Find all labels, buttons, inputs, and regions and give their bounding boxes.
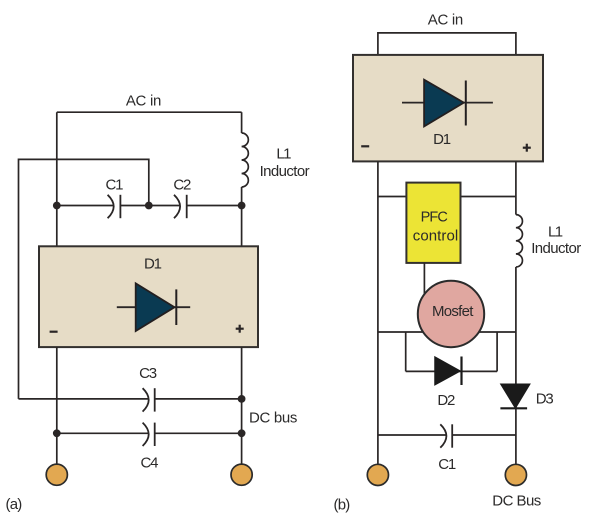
svg-text:D1: D1 xyxy=(433,131,451,148)
rectifier block D1 (a) xyxy=(39,246,258,347)
wire: C1 row middle segment (a) xyxy=(120,205,180,207)
diode D3 triangle xyxy=(501,384,529,407)
node dot right C-row (a) xyxy=(238,202,246,210)
wire: D2 row horizontal xyxy=(406,370,497,372)
rectifier block D1 (b) xyxy=(353,55,543,161)
wire: top horizontal AC-in rail (a) xyxy=(57,111,242,113)
wire: C1 row right segment (a) xyxy=(187,205,242,207)
wire: second horizontal rail to C1/C2 mid node (a) xyxy=(19,159,149,399)
svg-text:AC in: AC in xyxy=(428,11,464,28)
svg-text:D3: D3 xyxy=(536,391,554,408)
svg-text:DC bus: DC bus xyxy=(249,410,297,427)
wire: below inductor to node (a) xyxy=(241,187,243,246)
wire: C4 row left segment xyxy=(57,432,149,434)
svg-text:(b): (b) xyxy=(334,497,351,514)
capacitor C1 curved plate xyxy=(108,195,114,218)
node dot middle C-row (a) xyxy=(145,202,153,210)
diode triangle D1 (b) xyxy=(424,80,464,127)
capacitor C3 flat plate xyxy=(154,388,156,411)
wire: C3 row right segment xyxy=(155,398,242,400)
wire: right vertical below D1 (a) xyxy=(241,347,243,464)
capacitor C1 flat plate xyxy=(119,195,121,218)
capacitor C1b flat plate xyxy=(451,424,453,447)
PFC control box U1 xyxy=(406,183,460,263)
svg-text:PFC: PFC xyxy=(421,209,448,225)
svg-text:C4: C4 xyxy=(141,455,159,472)
wire: C1 row right segment (b) xyxy=(452,434,516,436)
svg-text:C3: C3 xyxy=(139,365,157,382)
terminal left (a) xyxy=(46,464,67,485)
svg-text:Inductor: Inductor xyxy=(531,240,581,257)
node dot C3 right xyxy=(238,395,246,403)
node dot left C-row (a) xyxy=(53,202,61,210)
diode D2 triangle xyxy=(435,357,460,384)
wire: PFC to Mosfet gate xyxy=(423,263,425,296)
capacitor C2 curved plate xyxy=(174,195,180,218)
wire: C4 row right segment xyxy=(155,432,242,434)
svg-text:D1: D1 xyxy=(144,255,162,272)
wire: horizontal link left vertical to PFC (b) xyxy=(378,196,407,198)
wire: C1 row left segment (a) xyxy=(57,205,114,207)
svg-text:Inductor: Inductor xyxy=(260,163,310,180)
node dot C4 right xyxy=(238,429,246,437)
svg-text:Mosfet: Mosfet xyxy=(432,303,474,320)
wire: D2 loop left vertical xyxy=(405,332,407,371)
capacitor C2 flat plate xyxy=(186,195,188,218)
capacitor C1b curved plate xyxy=(440,424,446,447)
diode cathode bar D1 (b) xyxy=(465,81,467,126)
diode triangle D1 (a) xyxy=(136,283,175,331)
diode D2 cathode bar xyxy=(460,357,462,386)
terminal right (b) xyxy=(505,464,526,485)
wire: left terminal lead (a) xyxy=(56,433,58,464)
wire: left vertical (b) from D1 to terminal xyxy=(377,161,379,464)
svg-text:C1: C1 xyxy=(438,456,456,473)
svg-text:L1: L1 xyxy=(548,224,563,241)
wire: D2 loop right vertical xyxy=(496,332,498,371)
wire: horizontal link PFC to right vertical (b) xyxy=(461,196,516,198)
wire: Mosfet row horizontal (b) xyxy=(378,331,516,333)
diode cathode bar D1 (a) xyxy=(175,289,177,325)
minus sign (b) xyxy=(361,145,369,147)
diode lead line inside D1 (a) xyxy=(117,306,190,308)
svg-text:D2: D2 xyxy=(437,392,455,409)
capacitor C4 curved plate xyxy=(143,423,149,446)
plus sign (b) xyxy=(523,144,531,152)
node dot C4 left xyxy=(53,429,61,437)
wire: right vertical from AC rail to inductor (a) xyxy=(241,112,243,133)
inductor L1 coil (b) xyxy=(516,215,523,267)
plus sign (a) xyxy=(236,325,244,333)
wire: left vertical from AC rail to C1 node (a) xyxy=(56,112,58,246)
mosfet Q1 circle xyxy=(418,281,484,347)
wire: AC-in bracket (b) xyxy=(378,33,516,55)
capacitor C3 curved plate xyxy=(143,388,149,411)
minus sign (a) xyxy=(50,331,58,333)
wire: C3 row left segment xyxy=(19,398,149,400)
svg-text:DC Bus: DC Bus xyxy=(492,493,541,510)
wire: below inductor (b) xyxy=(515,267,517,464)
svg-text:L1: L1 xyxy=(276,146,291,163)
svg-text:AC in: AC in xyxy=(126,92,162,109)
svg-text:control: control xyxy=(413,227,459,244)
diode D3 cathode bar xyxy=(500,407,527,409)
capacitor C4 flat plate xyxy=(154,423,156,446)
wire: left vertical below D1 (a) xyxy=(56,347,58,433)
terminal right (a) xyxy=(231,464,252,485)
diode lead line inside D1 (b) xyxy=(402,102,493,104)
svg-text:C2: C2 xyxy=(173,176,191,193)
svg-text:(a): (a) xyxy=(6,496,23,513)
wire: C1 row left segment (b) xyxy=(378,434,447,436)
wire: right vertical (b) from D1 to inductor xyxy=(515,161,517,214)
svg-text:C1: C1 xyxy=(106,176,124,193)
inductor L1 coil (a) xyxy=(242,133,249,187)
terminal left (b) xyxy=(367,464,388,485)
